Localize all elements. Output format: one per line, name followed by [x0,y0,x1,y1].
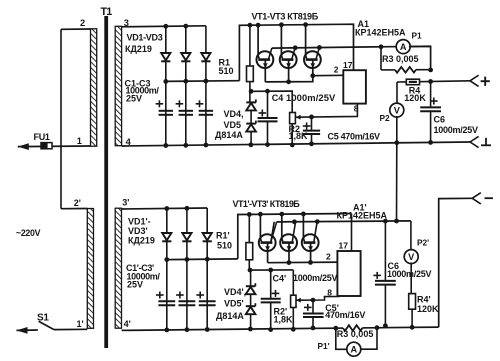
svg-text:A: A [400,42,407,52]
svg-text:VT1'-VT3' КТ819Б: VT1'-VT3' КТ819Б [233,199,301,209]
svg-text:470m/16V: 470m/16V [325,310,365,320]
svg-text:P1': P1' [318,341,330,351]
svg-text:R3 0,005: R3 0,005 [382,54,419,64]
svg-text:2': 2' [74,198,81,208]
svg-text:VD3': VD3' [128,226,148,236]
svg-text:VD4',: VD4', [224,287,246,297]
svg-text:V: V [394,105,401,115]
svg-text:P2: P2 [380,113,391,123]
svg-text:120K: 120K [417,304,439,314]
svg-text:КР142ЕН5А: КР142ЕН5А [355,28,406,38]
svg-text:1000m/25V: 1000m/25V [293,273,338,283]
svg-text:VD4,: VD4, [224,109,244,119]
svg-text:~220V: ~220V [16,228,41,238]
svg-text:C4': C4' [273,274,287,284]
svg-text:1000m/25V: 1000m/25V [387,269,432,279]
svg-text:2: 2 [80,18,85,28]
svg-text:17: 17 [339,241,349,251]
svg-text:4': 4' [124,319,131,329]
svg-text:3': 3' [122,198,129,208]
svg-text:VD5': VD5' [224,299,244,309]
svg-text:1000m/25V: 1000m/25V [434,125,479,135]
svg-text:8: 8 [327,287,332,297]
svg-text:Д814А: Д814А [216,311,244,321]
svg-text:25V: 25V [127,280,143,290]
svg-text:FU1: FU1 [34,132,50,142]
svg-text:C4: C4 [272,93,284,103]
svg-text:P2': P2' [417,237,429,247]
svg-text:S1: S1 [37,312,49,323]
svg-text:КР142ЕН5А: КР142ЕН5А [337,211,388,221]
svg-text:VD1'-: VD1'- [128,217,151,227]
svg-text:510: 510 [217,241,232,251]
svg-text:1': 1' [77,319,84,329]
svg-text:8: 8 [354,104,359,114]
svg-text:2: 2 [334,65,339,75]
svg-text:1,8K: 1,8K [274,314,294,324]
svg-text:VD5: VD5 [224,120,242,130]
svg-text:510: 510 [219,66,234,76]
svg-text:VT1-VT3 КТ819Б: VT1-VT3 КТ819Б [252,12,319,22]
svg-text:VD1-VD3: VD1-VD3 [127,33,163,43]
svg-text:1: 1 [77,136,82,146]
svg-text:P1: P1 [412,31,423,41]
svg-text:25V: 25V [126,94,142,104]
svg-text:1,8K: 1,8K [289,131,309,141]
svg-text:17: 17 [343,60,353,70]
svg-text:R1': R1' [216,231,230,241]
svg-text:1000m/25V: 1000m/25V [286,92,336,103]
svg-text:120K: 120K [404,93,426,103]
svg-text:T1: T1 [101,6,113,18]
svg-text:C5 470m/16V: C5 470m/16V [328,131,381,141]
svg-text:2: 2 [326,252,331,262]
svg-text:Д814А: Д814А [215,130,243,140]
svg-text:V: V [408,252,415,262]
svg-text:R3 0,005: R3 0,005 [337,329,374,339]
svg-text:A: A [350,344,357,354]
svg-text:КД219: КД219 [128,236,155,246]
svg-text:C6: C6 [434,115,446,125]
svg-text:КД219: КД219 [125,44,152,54]
svg-text:R4': R4' [417,295,431,305]
